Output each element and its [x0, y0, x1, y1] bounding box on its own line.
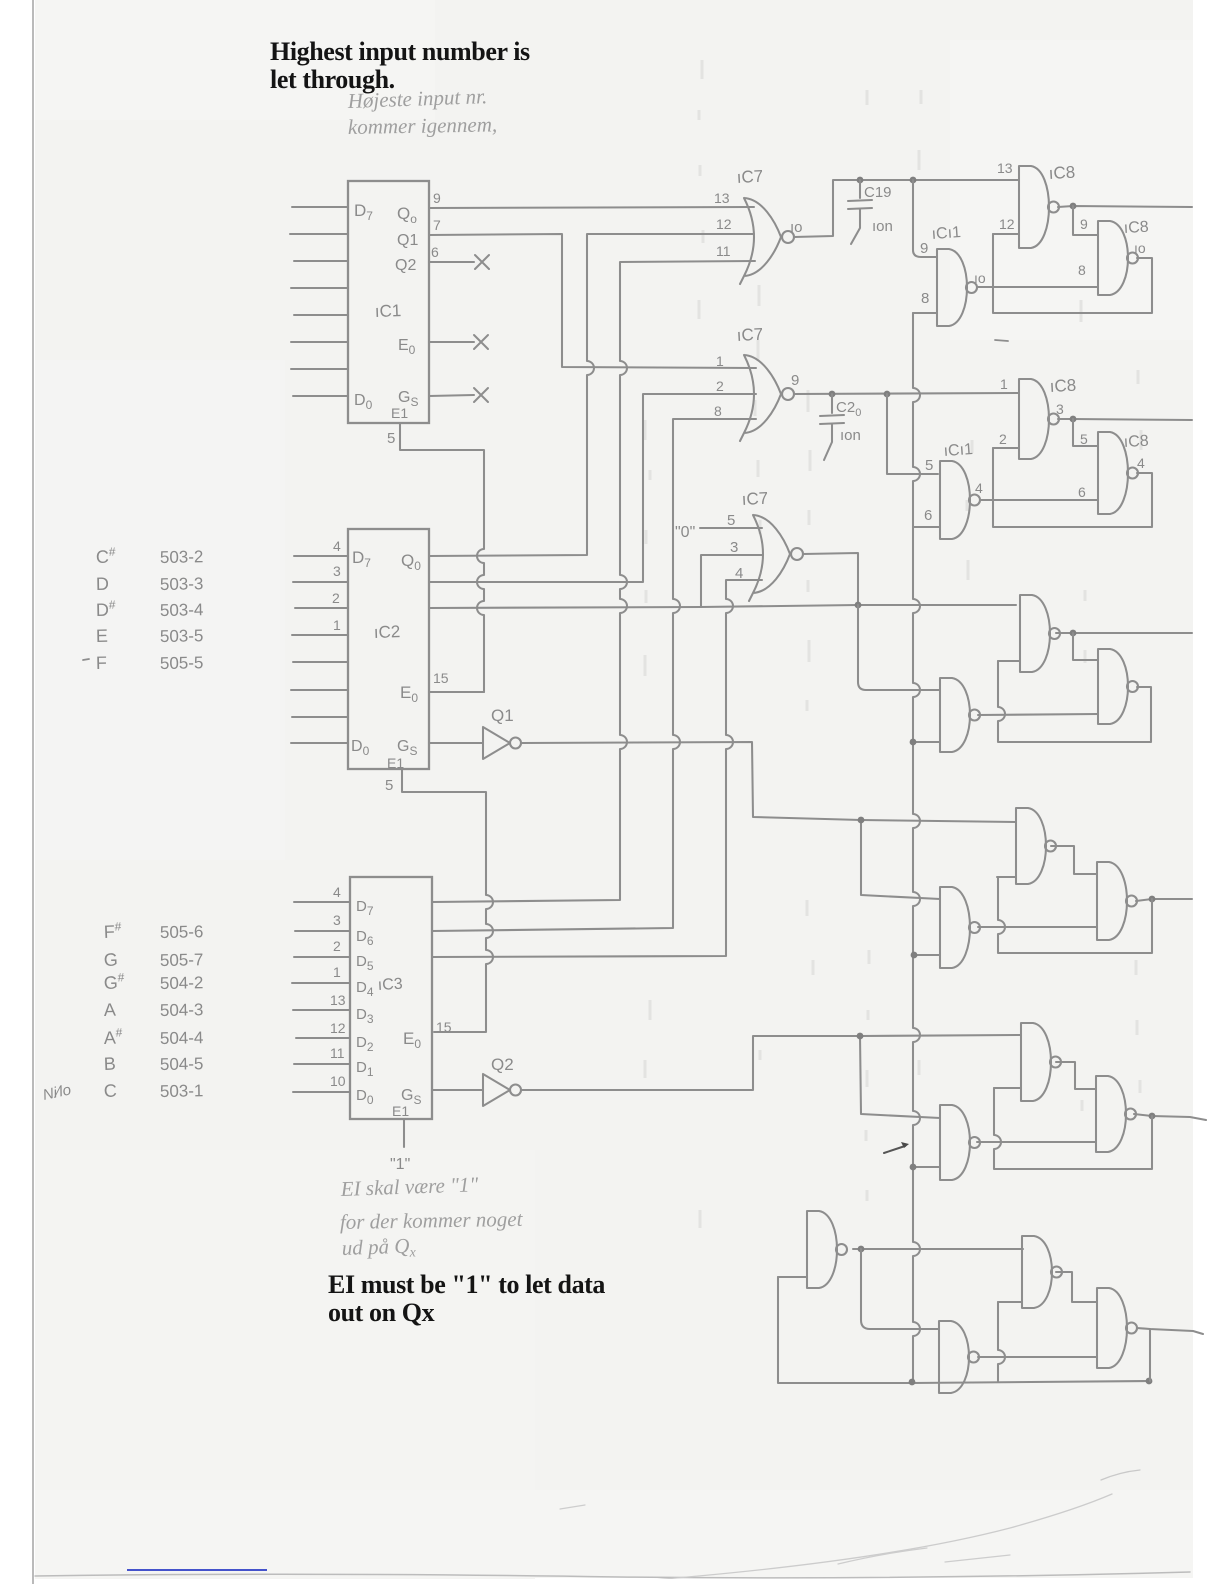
- wire IC11d pin b stub: [914, 954, 940, 956]
- svg-text:9: 9: [1080, 216, 1088, 232]
- wire IC1 E0 stub NC: [429, 341, 474, 343]
- wire latch6 output down to feedback rail: [1149, 1329, 1151, 1381]
- svg-text:ıC1: ıC1: [374, 301, 401, 321]
- svg-text:6: 6: [431, 244, 439, 260]
- svg-text:7: 7: [433, 217, 441, 233]
- wire feeder output to latch6 pin1: [853, 1248, 1023, 1250]
- svg-text:Q1: Q1: [491, 706, 514, 725]
- NOR gate IC7b: [740, 355, 781, 441]
- pencil arrow annotation: [884, 1146, 905, 1153]
- X mark on E0 NC: [474, 335, 488, 349]
- junction dot latch5 out: [1149, 1113, 1156, 1120]
- junction dot IC11b pin5 tap: [884, 391, 891, 398]
- capacitor C19: [848, 180, 872, 244]
- X mark on Q2 NC: [475, 255, 489, 269]
- wire feeder lower input down to bottom rail: [778, 1277, 1149, 1383]
- wire latch2 feedback loop: [993, 448, 1152, 527]
- wire latch3 cross-feedback: [1073, 633, 1098, 660]
- svg-text:E1: E1: [392, 1103, 409, 1119]
- svg-text:11: 11: [716, 243, 731, 259]
- wire IC7c output down to row3 wire: [803, 553, 858, 605]
- X mark on Gs NC: [474, 388, 488, 402]
- wire IC2 out3 / row3 set wire to latch3 pin1: [429, 605, 1016, 608]
- pencil dash under latch1: [995, 340, 1008, 341]
- node '0' input stub: [700, 527, 762, 529]
- svg-text:B: B: [103, 1054, 116, 1074]
- wire IC1 E1 to IC2 E0 (pin 5 to pin 15): [400, 423, 484, 692]
- svg-text:5: 5: [925, 457, 933, 474]
- junction dot rail tap row1: [910, 177, 917, 184]
- svg-text:2: 2: [999, 431, 1007, 447]
- NAND gate IC11f: [939, 1321, 969, 1393]
- svg-text:13: 13: [997, 160, 1013, 176]
- svg-text:504-4: 504-4: [160, 1028, 204, 1048]
- svg-text:8: 8: [921, 290, 929, 307]
- junction dot C19 tap: [857, 177, 864, 184]
- wire IC2 out2 up to IC7b pin 2: [429, 394, 756, 582]
- svg-text:8: 8: [1078, 262, 1086, 278]
- svg-text:ıC8: ıC8: [1123, 219, 1149, 237]
- NAND gate latch3 bottom: [1098, 649, 1128, 724]
- svg-text:13: 13: [330, 992, 346, 1008]
- wire latch1 cross-feedback to IC8-2 pin 9: [1073, 206, 1098, 235]
- wire IC11e output to latch5 bottom pin: [977, 1141, 1096, 1143]
- junction dot feedback bottom right: [1146, 1378, 1153, 1385]
- IC IC1 box: [348, 181, 429, 423]
- svg-text:"1": "1": [390, 1156, 410, 1173]
- svg-text:Q2: Q2: [491, 1055, 514, 1074]
- svg-text:504-3: 504-3: [160, 1000, 204, 1020]
- wire buffer Q1 output to row4 riser: [522, 742, 1016, 822]
- wire IC11f pin a riser: [861, 1249, 939, 1329]
- wire rail IC11 lower-pin chain (x=913): [913, 313, 920, 1382]
- buffer Q1: [483, 727, 510, 759]
- svg-text:11: 11: [330, 1045, 345, 1061]
- svg-text:12: 12: [716, 216, 732, 232]
- wire latch6 feedback riser: [998, 1302, 1005, 1381]
- junction dot rail IC11e pin b: [910, 1164, 917, 1171]
- wire IC11e pin b stub: [913, 1166, 940, 1168]
- svg-text:13: 13: [714, 190, 730, 206]
- svg-text:503-3: 503-3: [160, 574, 204, 594]
- junction dot row3 set wire: [855, 602, 862, 609]
- svg-text:4: 4: [975, 480, 983, 496]
- wire latch2 pin2 stub: [993, 447, 1019, 449]
- svg-text:15: 15: [436, 1019, 452, 1035]
- svg-text:ıC8: ıC8: [1123, 433, 1149, 451]
- wire IC11f output to latch6 bottom pin: [978, 1356, 1097, 1358]
- wire IC11b output to IC8-4 pin 6: [980, 499, 1098, 501]
- svg-text:for der kommer noget: for der kommer noget: [340, 1207, 524, 1234]
- wire feeder lower input stub: [778, 1276, 807, 1278]
- junction dot row5 set wire: [857, 1033, 864, 1040]
- tick before F: [83, 659, 89, 660]
- wire IC11c pin a riser: [858, 605, 940, 690]
- svg-text:F: F: [96, 653, 107, 673]
- NOR gate IC7a: [740, 198, 781, 284]
- svg-text:1: 1: [333, 964, 341, 980]
- junction dot latch3 out: [1070, 630, 1077, 637]
- wire latch3 feedback loop: [998, 661, 1151, 742]
- svg-text:ıCı1: ıCı1: [943, 441, 974, 460]
- svg-text:1: 1: [333, 617, 341, 633]
- svg-text:4: 4: [735, 565, 743, 582]
- svg-text:A: A: [103, 1000, 116, 1020]
- junction dot C20 tap: [829, 391, 836, 398]
- NAND gate latch6 bottom: [1097, 1288, 1127, 1368]
- NAND gate IC8-3 (latch2 top): [1019, 379, 1049, 459]
- svg-text:Højeste input nr.: Højeste input nr.: [346, 84, 487, 113]
- capacitor C20: [820, 394, 844, 460]
- IC1 input stubs D7-D0: [290, 207, 348, 396]
- svg-text:C: C: [103, 1081, 117, 1101]
- junction dot rail IC11c pin b: [910, 739, 917, 746]
- svg-text:1: 1: [1000, 376, 1008, 392]
- NOR gate IC7c: [749, 515, 790, 601]
- svg-text:3: 3: [333, 563, 341, 579]
- wire IC1 Q2 (pin 6) stub NC: [429, 261, 474, 263]
- wire IC1 Q0 (pin 9) to IC7a pin 13: [429, 207, 754, 208]
- NAND gate latch4 bottom: [1097, 862, 1127, 940]
- svg-text:"0": "0": [675, 524, 695, 541]
- NAND gate latch4 top: [1016, 808, 1046, 884]
- wire latch5 feedback loop: [994, 1088, 1152, 1169]
- svg-text:2: 2: [333, 938, 341, 954]
- NAND gate IC8-2 (latch1 bottom): [1098, 221, 1128, 295]
- svg-text:1: 1: [716, 353, 724, 369]
- NAND gate IC11d: [940, 887, 970, 968]
- NAND gate latch5 bottom: [1096, 1076, 1126, 1152]
- wire latch6 bottom output to right edge (row6 out): [1137, 1328, 1203, 1334]
- svg-text:Q2: Q2: [395, 257, 416, 274]
- NAND gate IC8-1 (latch1 top): [1019, 166, 1049, 248]
- wire latch5 bottom output to right edge (row5 out): [1134, 1114, 1206, 1120]
- wire IC3 out1 up to IC7a pin 11: [432, 261, 755, 902]
- wire IC2 E1 to IC3 E0 (pin 5 to pin 15): [402, 769, 493, 1032]
- NAND gate IC11b: [940, 461, 970, 539]
- wire latch4 feedback loop: [998, 877, 1152, 953]
- svg-text:5: 5: [1080, 431, 1088, 447]
- svg-text:503-1: 503-1: [160, 1081, 204, 1101]
- wire IC11d pin a riser: [861, 820, 940, 899]
- svg-text:EI skal være "1": EI skal være "1": [339, 1172, 479, 1201]
- NAND gate IC11c: [940, 678, 970, 752]
- svg-text:504-2: 504-2: [160, 973, 204, 993]
- NAND gate latch6 top: [1022, 1236, 1052, 1308]
- svg-text:505-6: 505-6: [160, 922, 204, 942]
- svg-text:12: 12: [999, 216, 1015, 232]
- svg-text:503-4: 503-4: [160, 600, 204, 620]
- svg-text:4: 4: [333, 538, 341, 554]
- svg-text:ıC7: ıC7: [736, 325, 763, 345]
- junction dot row4 set wire: [858, 817, 865, 824]
- svg-text:C19: C19: [864, 184, 892, 201]
- svg-text:ıC7: ıC7: [741, 489, 768, 509]
- wire latch4 top output to bottom pin a: [1051, 846, 1097, 874]
- svg-text:ıC8: ıC8: [1049, 376, 1076, 396]
- svg-text:505-5: 505-5: [160, 653, 204, 673]
- svg-text:3: 3: [333, 912, 341, 928]
- junction dot latch1 out: [1070, 203, 1077, 210]
- wire IC3 Gs to buffer Q2: [432, 1089, 483, 1091]
- wire IC7b output to latch2 pin1: [794, 393, 1019, 394]
- svg-text:2: 2: [332, 590, 340, 606]
- wire IC8-3 output to right edge (row2 out): [1058, 419, 1192, 420]
- svg-text:G: G: [103, 950, 118, 970]
- svg-text:503-5: 503-5: [160, 626, 204, 646]
- wire IC11b pin 5 riser: [887, 394, 938, 474]
- wire latch4 bottom output to right edge (row4 out): [1136, 899, 1192, 901]
- wire latch3 pin2 stub: [998, 660, 1020, 662]
- wire latch6 pin2 stub: [998, 1301, 1022, 1303]
- wire IC2 Q0 up to IC7a pin 12: [429, 234, 754, 556]
- wire IC2 E0 stub (pin 15): [429, 691, 484, 693]
- IC3 input stubs D7-D0: [292, 902, 350, 1092]
- wire IC2 Gs to buffer Q1: [429, 742, 483, 744]
- wire latch5 pin2 stub: [994, 1087, 1021, 1089]
- wire IC11e pin a riser: [860, 1036, 940, 1118]
- svg-text:out on Qx: out on Qx: [328, 1298, 435, 1327]
- wire IC1 Q1 (pin 7) down and right to IC7b pin 1: [429, 234, 756, 368]
- svg-text:3: 3: [1056, 401, 1064, 417]
- junction dot latch4 out: [1149, 896, 1156, 903]
- blue pen underline: [127, 1569, 267, 1571]
- svg-text:15: 15: [433, 670, 449, 686]
- NAND gate IC8-4 (latch2 bottom): [1098, 432, 1128, 514]
- buffer Q2: [483, 1074, 510, 1106]
- svg-text:ıC7: ıC7: [736, 167, 763, 187]
- svg-text:ıon: ıon: [872, 218, 893, 235]
- wire latch6 top output to bottom pin a: [1056, 1272, 1097, 1302]
- wire IC7a output up to y180 bus: [794, 180, 1019, 237]
- NAND gate IC11e: [940, 1105, 970, 1180]
- svg-text:ıo: ıo: [1134, 240, 1146, 256]
- wire IC11a pin 8 stub: [913, 312, 937, 314]
- IC IC3 box: [350, 877, 432, 1119]
- svg-text:ıCı1: ıCı1: [931, 224, 962, 243]
- svg-text:ıo: ıo: [974, 270, 986, 286]
- svg-text:EI must be "1" to let data: EI must be "1" to let data: [328, 1270, 605, 1299]
- svg-text:4: 4: [333, 884, 341, 900]
- IC2 input stubs D7-D0: [291, 556, 348, 743]
- svg-text:ıC3: ıC3: [377, 976, 403, 994]
- NAND gate latch3 top: [1020, 595, 1050, 672]
- wire rail to IC11a pin 9: [913, 180, 937, 257]
- wire latch3 top output to right edge (row3 out): [1056, 632, 1192, 634]
- svg-text:2: 2: [716, 378, 724, 394]
- svg-text:3: 3: [730, 539, 738, 556]
- wire IC3 out3 up to IC7c pin 4: [432, 580, 762, 957]
- wire latch4 pin2 stub: [997, 876, 1016, 878]
- NAND gate latch5 top: [1021, 1023, 1051, 1101]
- junction dot rail bottom terminus: [909, 1379, 916, 1386]
- svg-text:503-2: 503-2: [160, 547, 204, 567]
- svg-text:12: 12: [330, 1020, 346, 1036]
- IC IC2 box: [348, 529, 429, 769]
- svg-text:504-5: 504-5: [160, 1054, 204, 1074]
- wire IC11c output to latch3 bottom pin: [978, 714, 1098, 715]
- wire IC11d output to latch4 bottom pin: [978, 926, 1097, 928]
- junction dot row6 set wire: [858, 1246, 865, 1253]
- svg-text:9: 9: [791, 372, 799, 389]
- wire latch1 pin12 stub: [993, 233, 1019, 235]
- svg-text:D: D: [96, 574, 109, 594]
- svg-text:4: 4: [1137, 455, 1145, 471]
- svg-text:E: E: [96, 626, 108, 646]
- wire IC11a output to IC8-2 pin 8: [977, 286, 1098, 288]
- wire IC3 out2 up to IC7b pin 8: [432, 419, 756, 931]
- svg-text:Highest input number is: Highest input number is: [270, 37, 530, 66]
- wire IC3 E1 stub to '1': [403, 1119, 405, 1147]
- junction dot latch2 out: [1070, 416, 1077, 423]
- svg-text:6: 6: [1078, 484, 1086, 500]
- svg-text:5: 5: [385, 777, 393, 794]
- svg-text:kommer igennem,: kommer igennem,: [348, 112, 498, 139]
- wire IC8-1 output to right edge (row1 out): [1058, 206, 1192, 207]
- svg-text:9: 9: [433, 190, 441, 206]
- svg-text:Q1: Q1: [397, 232, 418, 249]
- svg-text:ıon: ıon: [840, 427, 861, 444]
- svg-text:E1: E1: [391, 405, 408, 421]
- svg-text:5: 5: [387, 430, 395, 447]
- svg-text:ıo: ıo: [790, 219, 803, 236]
- svg-text:ıC8: ıC8: [1048, 163, 1075, 183]
- wire IC11c pin b stub: [913, 741, 940, 743]
- wire IC11b pin 6 stub: [913, 526, 940, 528]
- NAND gate row6 feeder: [807, 1211, 837, 1288]
- wire buffer Q2 output to row5 riser: [522, 1035, 1021, 1090]
- svg-text:5: 5: [727, 512, 735, 529]
- svg-text:6: 6: [924, 507, 932, 524]
- svg-text:ıC2: ıC2: [373, 622, 400, 642]
- svg-text:9: 9: [920, 240, 928, 257]
- wire latch5 top output to bottom pin a: [1056, 1062, 1096, 1089]
- NAND gate IC11a: [937, 249, 967, 326]
- junction row3 wire to IC7c pin 3 riser: [701, 555, 762, 607]
- svg-text:10: 10: [330, 1073, 346, 1089]
- wire IC1 Gs stub NC: [429, 395, 474, 396]
- svg-text:505-7: 505-7: [160, 950, 204, 970]
- wire latch1 feedback loop: [993, 234, 1152, 313]
- junction dot rail IC11d pin b: [911, 952, 918, 959]
- svg-text:8: 8: [714, 403, 722, 419]
- wire latch2 cross-feedback to IC8-4 pin 5: [1073, 419, 1098, 446]
